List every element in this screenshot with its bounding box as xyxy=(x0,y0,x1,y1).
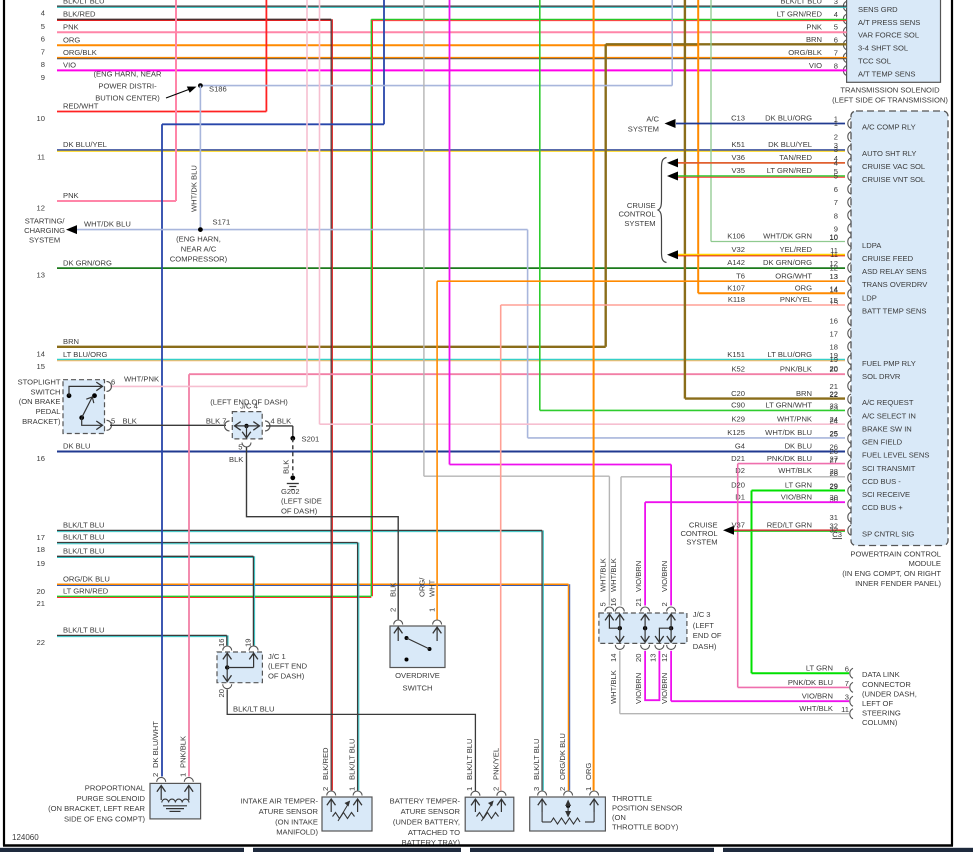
svg-text:LT GRN/WHT: LT GRN/WHT xyxy=(765,401,812,410)
svg-text:3: 3 xyxy=(834,0,838,6)
ground G202 xyxy=(290,475,295,480)
svg-text:COLUMN): COLUMN) xyxy=(862,718,898,727)
wire PNK/BLK (PCM pin 20 to proportional purge solenoid pin 1) xyxy=(189,373,845,375)
svg-text:12: 12 xyxy=(660,654,669,662)
svg-text:PNK: PNK xyxy=(63,191,79,200)
wire WHT/PNK (stoplight switch pin 6 to top) xyxy=(110,385,307,387)
svg-text:S186: S186 xyxy=(209,85,227,94)
svg-text:16: 16 xyxy=(830,316,838,325)
wire row 15 LT BLU/ORG xyxy=(57,359,845,361)
svg-text:30: 30 xyxy=(830,493,838,502)
svg-text:(IN ENG COMPT, ON RIGHT: (IN ENG COMPT, ON RIGHT xyxy=(842,569,941,578)
svg-text:BLK: BLK xyxy=(282,460,291,474)
wire row 22 BLK/LT BLU xyxy=(57,634,227,636)
svg-text:SIDE OF ENG COMPT): SIDE OF ENG COMPT) xyxy=(64,815,145,824)
svg-text:K151: K151 xyxy=(727,350,745,359)
wire VIO/BRN (from top to J/C 3 pin 2) xyxy=(449,0,451,465)
svg-text:9: 9 xyxy=(41,73,45,82)
wire LT GRN (PCM pin 29 to data link connector pin 6) xyxy=(752,490,846,492)
junction connector J/C 3 xyxy=(599,613,687,643)
svg-text:ASD RELAY SENS: ASD RELAY SENS xyxy=(862,267,927,276)
svg-text:LT BLU/ORG: LT BLU/ORG xyxy=(63,350,108,359)
svg-text:2: 2 xyxy=(492,787,501,791)
svg-text:20: 20 xyxy=(830,365,838,374)
svg-text:SOL DRVR: SOL DRVR xyxy=(862,372,901,381)
svg-text:PNK/YEL: PNK/YEL xyxy=(492,748,501,780)
svg-text:INTAKE AIR TEMPER-: INTAKE AIR TEMPER- xyxy=(241,797,319,806)
svg-text:BLK/LT BLU: BLK/LT BLU xyxy=(780,0,822,6)
wire BLK/LT BLU (row 17 down to throttle position sensor pin 3) xyxy=(541,530,543,790)
svg-text:POSITION SENSOR: POSITION SENSOR xyxy=(612,803,683,812)
svg-text:4: 4 xyxy=(834,158,838,167)
proportional purge solenoid xyxy=(150,783,201,819)
svg-text:13: 13 xyxy=(649,654,658,662)
svg-text:5: 5 xyxy=(111,416,115,425)
svg-text:RED/WHT: RED/WHT xyxy=(63,102,99,111)
svg-text:ORG: ORG xyxy=(63,35,80,44)
svg-text:7: 7 xyxy=(41,48,45,57)
svg-text:LDPA: LDPA xyxy=(862,241,882,250)
svg-text:22: 22 xyxy=(830,390,838,399)
svg-text:15: 15 xyxy=(830,296,838,305)
svg-text:OVERDRIVE: OVERDRIVE xyxy=(395,671,440,680)
svg-text:16: 16 xyxy=(37,454,45,463)
svg-text:TRANSMISSION SOLENOID: TRANSMISSION SOLENOID xyxy=(840,85,940,94)
svg-text:7: 7 xyxy=(834,198,838,207)
svg-text:V37: V37 xyxy=(731,520,745,529)
throttle position sensor xyxy=(530,797,606,831)
svg-text:J/C 4: J/C 4 xyxy=(240,402,258,411)
svg-text:ATTACHED TO: ATTACHED TO xyxy=(408,828,460,837)
wire BRN (from top to PCM pin 22) xyxy=(684,0,686,399)
svg-text:BRN: BRN xyxy=(806,35,822,44)
svg-text:C13: C13 xyxy=(731,114,745,123)
svg-text:BLK/LT BLU: BLK/LT BLU xyxy=(63,533,105,542)
svg-text:DK BLU/YEL: DK BLU/YEL xyxy=(63,140,107,149)
svg-text:DK BLU: DK BLU xyxy=(785,442,812,451)
svg-text:6: 6 xyxy=(834,185,838,194)
wire RED/WHT vertical (row 10 to top) xyxy=(265,0,267,112)
svg-text:22: 22 xyxy=(37,638,45,647)
svg-text:1: 1 xyxy=(834,119,838,128)
svg-text:7: 7 xyxy=(834,48,838,57)
svg-text:21: 21 xyxy=(634,598,643,606)
svg-text:ORG/BLK: ORG/BLK xyxy=(63,48,97,57)
svg-text:VAR FORCE SOL: VAR FORCE SOL xyxy=(858,31,919,40)
svg-text:PNK/DK BLU: PNK/DK BLU xyxy=(788,678,833,687)
wire BLK/LT BLU (row 19 down to J/C 1 pin 19) xyxy=(252,556,254,645)
svg-text:RED/LT GRN: RED/LT GRN xyxy=(767,520,812,529)
svg-text:LDP: LDP xyxy=(862,293,877,302)
svg-text:DK BLU/YEL: DK BLU/YEL xyxy=(768,140,812,149)
wire WHT/DK GRN (from top to PCM pin 10) xyxy=(710,0,712,242)
svg-text:MODULE: MODULE xyxy=(909,559,942,568)
svg-text:29: 29 xyxy=(830,481,838,490)
svg-text:3-4 SHFT SOL: 3-4 SHFT SOL xyxy=(858,44,908,53)
svg-text:BLK/RED: BLK/RED xyxy=(63,10,96,19)
svg-text:12: 12 xyxy=(830,263,838,272)
wire row 21 LT GRN/RED xyxy=(57,595,371,597)
svg-text:YEL/RED: YEL/RED xyxy=(780,245,813,254)
svg-text:12: 12 xyxy=(37,204,45,213)
wire BLK (J/C 4 pin 5 to overdrive switch pin 2) xyxy=(247,447,399,620)
bottom navigation bar xyxy=(0,848,244,852)
svg-text:1: 1 xyxy=(465,787,474,791)
wire BLK dashed (S201 to ground G202) xyxy=(292,438,294,475)
svg-text:20: 20 xyxy=(37,587,45,596)
svg-text:21: 21 xyxy=(37,599,45,608)
svg-text:BRAKE SW IN: BRAKE SW IN xyxy=(862,425,912,434)
overdrive switch xyxy=(390,626,445,668)
svg-text:28: 28 xyxy=(830,467,838,476)
wire ORG (row 7 / PCM pin 14) xyxy=(697,0,699,293)
svg-text:VIO: VIO xyxy=(63,61,76,70)
svg-text:PURGE SOLENOID: PURGE SOLENOID xyxy=(77,794,146,803)
wire ORG/DK BLU (row 20 down to throttle position sensor pin 2) xyxy=(568,584,570,790)
svg-text:BUTION CENTER): BUTION CENTER) xyxy=(95,94,160,103)
svg-text:GEN FIELD: GEN FIELD xyxy=(862,438,903,447)
svg-text:S171: S171 xyxy=(213,218,231,227)
svg-text:THROTTLE BODY): THROTTLE BODY) xyxy=(612,823,679,832)
svg-text:(ON: (ON xyxy=(612,813,626,822)
intake air temperature sensor xyxy=(322,797,372,831)
svg-text:J/C 3: J/C 3 xyxy=(693,610,711,619)
svg-text:K106: K106 xyxy=(727,232,745,241)
svg-text:POWERTRAIN CONTROL: POWERTRAIN CONTROL xyxy=(850,549,941,558)
svg-text:8: 8 xyxy=(41,60,45,69)
svg-text:5: 5 xyxy=(834,172,838,181)
wire row 11 DK BLU/YEL xyxy=(57,149,845,151)
svg-text:CHARGING: CHARGING xyxy=(24,226,65,235)
svg-text:VIO/BRN: VIO/BRN xyxy=(634,561,643,592)
svg-text:CCD BUS +: CCD BUS + xyxy=(862,503,903,512)
svg-text:V36: V36 xyxy=(731,153,745,162)
svg-text:LT GRN/RED: LT GRN/RED xyxy=(777,10,823,19)
svg-text:D1: D1 xyxy=(735,492,745,501)
svg-text:23: 23 xyxy=(830,401,838,410)
wire row 9 VIO xyxy=(57,69,847,71)
svg-text:FUEL PMP RLY: FUEL PMP RLY xyxy=(862,359,916,368)
svg-text:4: 4 xyxy=(834,10,838,19)
svg-text:A/C: A/C xyxy=(646,115,659,124)
svg-text:14: 14 xyxy=(830,284,838,293)
wire row 14 BRN xyxy=(57,346,606,348)
svg-text:PNK/YEL: PNK/YEL xyxy=(780,295,812,304)
svg-text:BLK/LT BLU: BLK/LT BLU xyxy=(63,521,105,530)
svg-text:SCI RECEIVE: SCI RECEIVE xyxy=(862,490,910,499)
wire row 5 BLK/RED xyxy=(57,18,331,20)
wire row 18 BLK/LT BLU xyxy=(57,542,358,544)
svg-text:19: 19 xyxy=(244,639,253,647)
svg-text:S201: S201 xyxy=(302,434,320,443)
svg-text:7: 7 xyxy=(845,679,849,688)
svg-text:(ENG HARN,: (ENG HARN, xyxy=(176,235,221,244)
svg-text:10: 10 xyxy=(830,233,838,242)
svg-text:BRACKET): BRACKET) xyxy=(22,417,61,426)
wire VIO/BRN (J/C 3 pin 20 to pin 13) xyxy=(645,651,659,700)
svg-text:24: 24 xyxy=(830,415,838,424)
svg-text:3: 3 xyxy=(834,145,838,154)
wire LT GRN/WHT (from top to PCM pin 23) xyxy=(539,0,541,410)
svg-text:SYSTEM: SYSTEM xyxy=(628,125,659,134)
svg-text:LT GRN: LT GRN xyxy=(806,664,833,673)
wire VIO/BRN (PCM pin 30 to J/C 3 pin 21) xyxy=(645,501,845,503)
svg-text:COMPRESSOR): COMPRESSOR) xyxy=(170,255,228,264)
battery temperature sensor xyxy=(465,797,514,831)
svg-text:STOPLIGHT: STOPLIGHT xyxy=(18,378,61,387)
svg-text:DK GRN/ORG: DK GRN/ORG xyxy=(763,258,812,267)
stoplight switch xyxy=(63,380,105,434)
wire PNK/YEL (PCM pin 15 to battery temperature sensor pin 2) xyxy=(501,304,845,306)
svg-text:K107: K107 xyxy=(727,284,745,293)
wire row 19 BLK/LT BLU xyxy=(57,555,253,557)
svg-text:TAN/RED: TAN/RED xyxy=(779,153,812,162)
svg-text:THROTTLE: THROTTLE xyxy=(612,794,652,803)
svg-text:AUTO SHT RLY: AUTO SHT RLY xyxy=(862,149,916,158)
svg-text:K29: K29 xyxy=(731,414,745,423)
svg-text:15: 15 xyxy=(37,362,45,371)
svg-text:8: 8 xyxy=(834,61,838,70)
svg-text:PNK/BLK: PNK/BLK xyxy=(179,736,188,768)
svg-text:K118: K118 xyxy=(728,295,745,304)
wire BRN (row 14 up to transmission solenoid pin 6) xyxy=(605,44,607,347)
svg-text:27: 27 xyxy=(830,455,838,464)
svg-text:1: 1 xyxy=(348,787,357,791)
svg-text:ORG/BLK: ORG/BLK xyxy=(788,48,822,57)
svg-text:BLK/LT BLU: BLK/LT BLU xyxy=(233,705,275,714)
svg-text:11: 11 xyxy=(830,250,838,259)
wire BLK (J/C 4 pin 4 to splice S201) xyxy=(266,425,293,427)
svg-text:WHT/BLK: WHT/BLK xyxy=(778,466,812,475)
svg-text:CRUISE VNT SOL: CRUISE VNT SOL xyxy=(862,175,925,184)
svg-text:WHT/DK BLU: WHT/DK BLU xyxy=(765,428,812,437)
svg-text:124060: 124060 xyxy=(12,833,39,842)
wire WHT/PNK (from top to PCM pin 24) xyxy=(319,0,321,424)
wire DK BLU/ORG (PCM pin 1 to A/C system) xyxy=(676,123,845,125)
wire row 10 RED/WHT xyxy=(57,111,266,113)
wire PNK/DK BLU (PCM pin 27 to data link connector pin 7) xyxy=(738,463,845,465)
svg-text:1: 1 xyxy=(428,608,437,612)
svg-text:STEERING: STEERING xyxy=(862,709,901,718)
wire WHT/BLK (J/C 3 pin 14 to data link connector pin 11) xyxy=(619,651,621,714)
svg-text:1: 1 xyxy=(179,773,188,777)
svg-text:PNK/BLK: PNK/BLK xyxy=(780,364,812,373)
svg-text:BRN: BRN xyxy=(796,389,812,398)
svg-text:PNK: PNK xyxy=(63,22,79,31)
svg-text:V32: V32 xyxy=(731,245,745,254)
svg-text:(ENG HARN, NEAR: (ENG HARN, NEAR xyxy=(94,70,162,79)
wire PNK vertical (row 12 to top) xyxy=(175,0,177,201)
svg-text:2: 2 xyxy=(660,602,669,606)
svg-text:K125: K125 xyxy=(727,428,745,437)
svg-text:FUEL LEVEL SENS: FUEL LEVEL SENS xyxy=(862,451,929,460)
wire BLK/LT BLU (row 18 down to intake air temp sensor pin 1) xyxy=(357,543,359,791)
svg-text:OF DASH): OF DASH) xyxy=(281,506,318,515)
svg-text:SWITCH: SWITCH xyxy=(31,387,61,396)
wire DK BLU/WHT (from top to proportional purge solenoid pin 2) xyxy=(383,0,385,124)
wire BLK/LT BLU (J/C 1 pin 20 to battery temperature sensor pin 1) xyxy=(227,690,475,792)
svg-text:16: 16 xyxy=(217,639,226,647)
svg-text:PNK: PNK xyxy=(806,22,822,31)
svg-text:VIO: VIO xyxy=(809,61,822,70)
svg-text:CONNECTOR: CONNECTOR xyxy=(862,680,911,689)
svg-text:ATURE SENSOR: ATURE SENSOR xyxy=(259,807,319,816)
svg-text:2: 2 xyxy=(151,773,160,777)
svg-text:3: 3 xyxy=(532,787,541,791)
svg-text:NEAR A/C: NEAR A/C xyxy=(181,245,217,254)
svg-text:BLK/LT BLU: BLK/LT BLU xyxy=(63,626,105,635)
svg-text:J/C 1: J/C 1 xyxy=(268,652,286,661)
svg-text:BLK/LT BLU: BLK/LT BLU xyxy=(348,738,357,780)
svg-text:5: 5 xyxy=(599,602,608,606)
svg-text:WHT/PNK: WHT/PNK xyxy=(777,414,812,423)
svg-text:(LEFT END: (LEFT END xyxy=(268,662,308,671)
wire BLK/RED vertical (row 5 down to intake air temp sensor pin 2) xyxy=(330,19,332,790)
svg-text:WHT/DK BLU: WHT/DK BLU xyxy=(84,220,131,229)
svg-text:LT GRN: LT GRN xyxy=(785,481,812,490)
svg-text:PROPORTIONAL: PROPORTIONAL xyxy=(85,783,145,792)
svg-text:14: 14 xyxy=(37,349,45,358)
svg-text:WHT/BLK: WHT/BLK xyxy=(609,670,618,704)
svg-text:C20: C20 xyxy=(731,389,745,398)
svg-text:ORG/WHT: ORG/WHT xyxy=(775,271,812,280)
svg-text:STARTING/: STARTING/ xyxy=(25,217,66,226)
svg-text:19: 19 xyxy=(830,355,838,364)
svg-text:BATTERY TEMPER-: BATTERY TEMPER- xyxy=(390,797,461,806)
svg-text:2: 2 xyxy=(389,608,398,612)
svg-text:14: 14 xyxy=(609,654,618,662)
svg-text:VIO/BRN: VIO/BRN xyxy=(660,561,669,592)
svg-text:VIO/BRN: VIO/BRN xyxy=(802,692,833,701)
svg-text:SP CNTRL SIG: SP CNTRL SIG xyxy=(862,529,914,538)
wire YEL/RED (PCM pin 11 to cruise control system) xyxy=(678,254,845,256)
svg-text:PNK/DK BLU: PNK/DK BLU xyxy=(767,454,812,463)
svg-text:C90: C90 xyxy=(731,401,745,410)
svg-text:BLK 7: BLK 7 xyxy=(206,417,227,426)
wire WHT/BLK (from top to junction connector J/C 3 pin 5) xyxy=(423,0,425,476)
svg-text:BLK: BLK xyxy=(389,583,398,597)
svg-text:SWITCH: SWITCH xyxy=(403,683,433,692)
svg-text:WHT/BLK: WHT/BLK xyxy=(799,704,833,713)
svg-text:10: 10 xyxy=(37,114,45,123)
svg-text:ORG: ORG xyxy=(584,763,593,780)
svg-text:TCC SOL: TCC SOL xyxy=(858,56,891,65)
wire row 6 PNK xyxy=(57,31,847,33)
svg-text:4: 4 xyxy=(41,9,45,18)
svg-text:VIO/BRN: VIO/BRN xyxy=(660,673,669,704)
svg-text:11: 11 xyxy=(841,705,849,714)
svg-text:BLK: BLK xyxy=(123,416,137,425)
svg-text:END OF: END OF xyxy=(693,631,722,640)
svg-text:WHT/BLK: WHT/BLK xyxy=(609,558,618,592)
wire row 8 ORG/BLK xyxy=(57,57,847,59)
svg-text:WHT/DK BLU: WHT/DK BLU xyxy=(190,165,199,212)
svg-text:19: 19 xyxy=(37,559,45,568)
svg-text:(ON BRACKET, LEFT REAR: (ON BRACKET, LEFT REAR xyxy=(48,804,145,813)
junction connector J/C 1 xyxy=(217,652,262,683)
svg-text:SYSTEM: SYSTEM xyxy=(686,538,717,547)
svg-text:A/C SELECT IN: A/C SELECT IN xyxy=(862,411,916,420)
svg-text:T6: T6 xyxy=(736,271,745,280)
svg-text:(UNDER DASH,: (UNDER DASH, xyxy=(862,689,917,698)
svg-text:(ON BRAKE: (ON BRAKE xyxy=(19,397,61,406)
wire row 12 PNK xyxy=(57,200,176,202)
svg-text:D2: D2 xyxy=(735,466,745,475)
svg-text:A/C COMP RLY: A/C COMP RLY xyxy=(862,123,916,132)
svg-text:BLK/LT BLU: BLK/LT BLU xyxy=(63,547,105,556)
svg-text:2: 2 xyxy=(321,787,330,791)
svg-text:DATA LINK: DATA LINK xyxy=(862,670,900,679)
svg-text:VIO/BRN: VIO/BRN xyxy=(781,492,812,501)
svg-text:G4: G4 xyxy=(735,442,745,451)
svg-text:20: 20 xyxy=(634,654,643,662)
svg-text:5: 5 xyxy=(834,23,838,32)
svg-text:D21: D21 xyxy=(731,454,745,463)
svg-text:A/C REQUEST: A/C REQUEST xyxy=(862,398,914,407)
svg-text:CRUISE FEED: CRUISE FEED xyxy=(862,254,914,263)
svg-text:DK BLU: DK BLU xyxy=(63,442,90,451)
svg-text:WHT: WHT xyxy=(428,579,437,597)
wire ORG/WHT (PCM pin 13 to overdrive switch pin 1) xyxy=(437,280,845,282)
svg-text:BRN: BRN xyxy=(63,337,79,346)
svg-text:WHT/BLK: WHT/BLK xyxy=(599,558,608,592)
svg-text:DK GRN/ORG: DK GRN/ORG xyxy=(63,258,112,267)
svg-text:A/T PRESS SENS: A/T PRESS SENS xyxy=(858,18,920,27)
svg-text:(ON INTAKE: (ON INTAKE xyxy=(275,818,318,827)
svg-text:ATURE SENSOR: ATURE SENSOR xyxy=(401,807,461,816)
splice S201 xyxy=(290,436,295,441)
svg-text:ORG: ORG xyxy=(795,284,812,293)
svg-text:20: 20 xyxy=(217,689,226,697)
svg-text:16: 16 xyxy=(609,598,618,606)
wire WHT/BLK (PCM pin 28 to J/C 3 pin 16) xyxy=(621,476,845,478)
svg-text:V35: V35 xyxy=(731,166,745,175)
svg-text:VIO/BRN: VIO/BRN xyxy=(634,673,643,704)
svg-text:D20: D20 xyxy=(731,481,745,490)
svg-text:6: 6 xyxy=(41,35,45,44)
wire row 4 BLK/LT BLU xyxy=(57,5,847,7)
svg-text:ORG/DK BLU: ORG/DK BLU xyxy=(558,733,567,780)
svg-text:(LEFT: (LEFT xyxy=(693,621,714,630)
svg-text:BLK: BLK xyxy=(229,455,243,464)
svg-text:BLK/RED: BLK/RED xyxy=(321,747,330,780)
svg-text:CONTROL: CONTROL xyxy=(618,209,655,218)
svg-text:LT BLU/ORG: LT BLU/ORG xyxy=(768,350,813,359)
wire BLK (stoplight switch pin 5 to junction connector J/C 4) xyxy=(110,424,226,426)
svg-text:MANIFOLD): MANIFOLD) xyxy=(276,828,318,837)
svg-text:25: 25 xyxy=(830,429,838,438)
svg-text:BLK/LT BLU: BLK/LT BLU xyxy=(532,738,541,780)
svg-text:5: 5 xyxy=(238,443,242,452)
svg-text:A142: A142 xyxy=(727,258,745,267)
svg-text:CCD BUS -: CCD BUS - xyxy=(862,477,901,486)
svg-text:2: 2 xyxy=(558,787,567,791)
svg-text:DK BLU/WHT: DK BLU/WHT xyxy=(151,721,160,768)
wire RED/LT GRN (PCM pin 32 to cruise control system) xyxy=(734,529,845,531)
svg-text:K51: K51 xyxy=(731,140,745,149)
svg-text:(LEFT SIDE OF TRANSMISSION): (LEFT SIDE OF TRANSMISSION) xyxy=(832,95,948,104)
svg-text:8: 8 xyxy=(834,211,838,220)
svg-text:4 BLK: 4 BLK xyxy=(271,417,292,426)
svg-text:SYSTEM: SYSTEM xyxy=(624,219,655,228)
wire BLK/LT BLU (row 22 down to J/C 1 pin 16) xyxy=(226,635,228,645)
svg-text:SYSTEM: SYSTEM xyxy=(29,236,60,245)
svg-text:CRUISE VAC SOL: CRUISE VAC SOL xyxy=(862,162,925,171)
svg-text:ORG/: ORG/ xyxy=(418,577,427,597)
svg-text:WHT/DK GRN: WHT/DK GRN xyxy=(763,232,812,241)
wire LT GRN/RED (row 21 up to transmission solenoid pin 4) xyxy=(370,19,372,596)
svg-text:ORG/DK BLU: ORG/DK BLU xyxy=(63,575,110,584)
